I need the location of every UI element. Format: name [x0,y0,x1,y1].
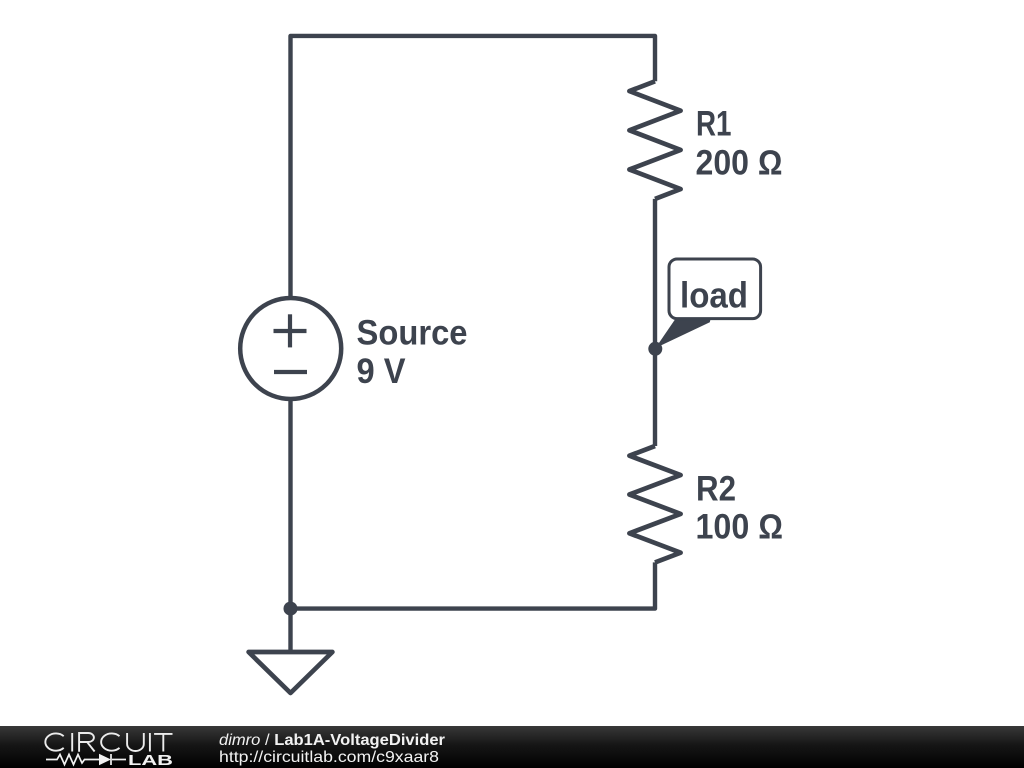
svg-text:R2: R2 [696,470,736,509]
svg-text:load: load [680,274,748,315]
svg-text:100 Ω: 100 Ω [696,508,784,547]
svg-text:http://circuitlab.com/c9xaar8: http://circuitlab.com/c9xaar8 [219,749,439,766]
svg-text:Source: Source [357,313,468,352]
svg-text:LAB: LAB [128,753,173,768]
svg-text:200 Ω: 200 Ω [696,144,783,183]
svg-text:dimro / Lab1A-VoltageDivider: dimro / Lab1A-VoltageDivider [219,732,445,749]
svg-text:R1: R1 [696,104,732,143]
svg-text:9 V: 9 V [357,352,407,391]
